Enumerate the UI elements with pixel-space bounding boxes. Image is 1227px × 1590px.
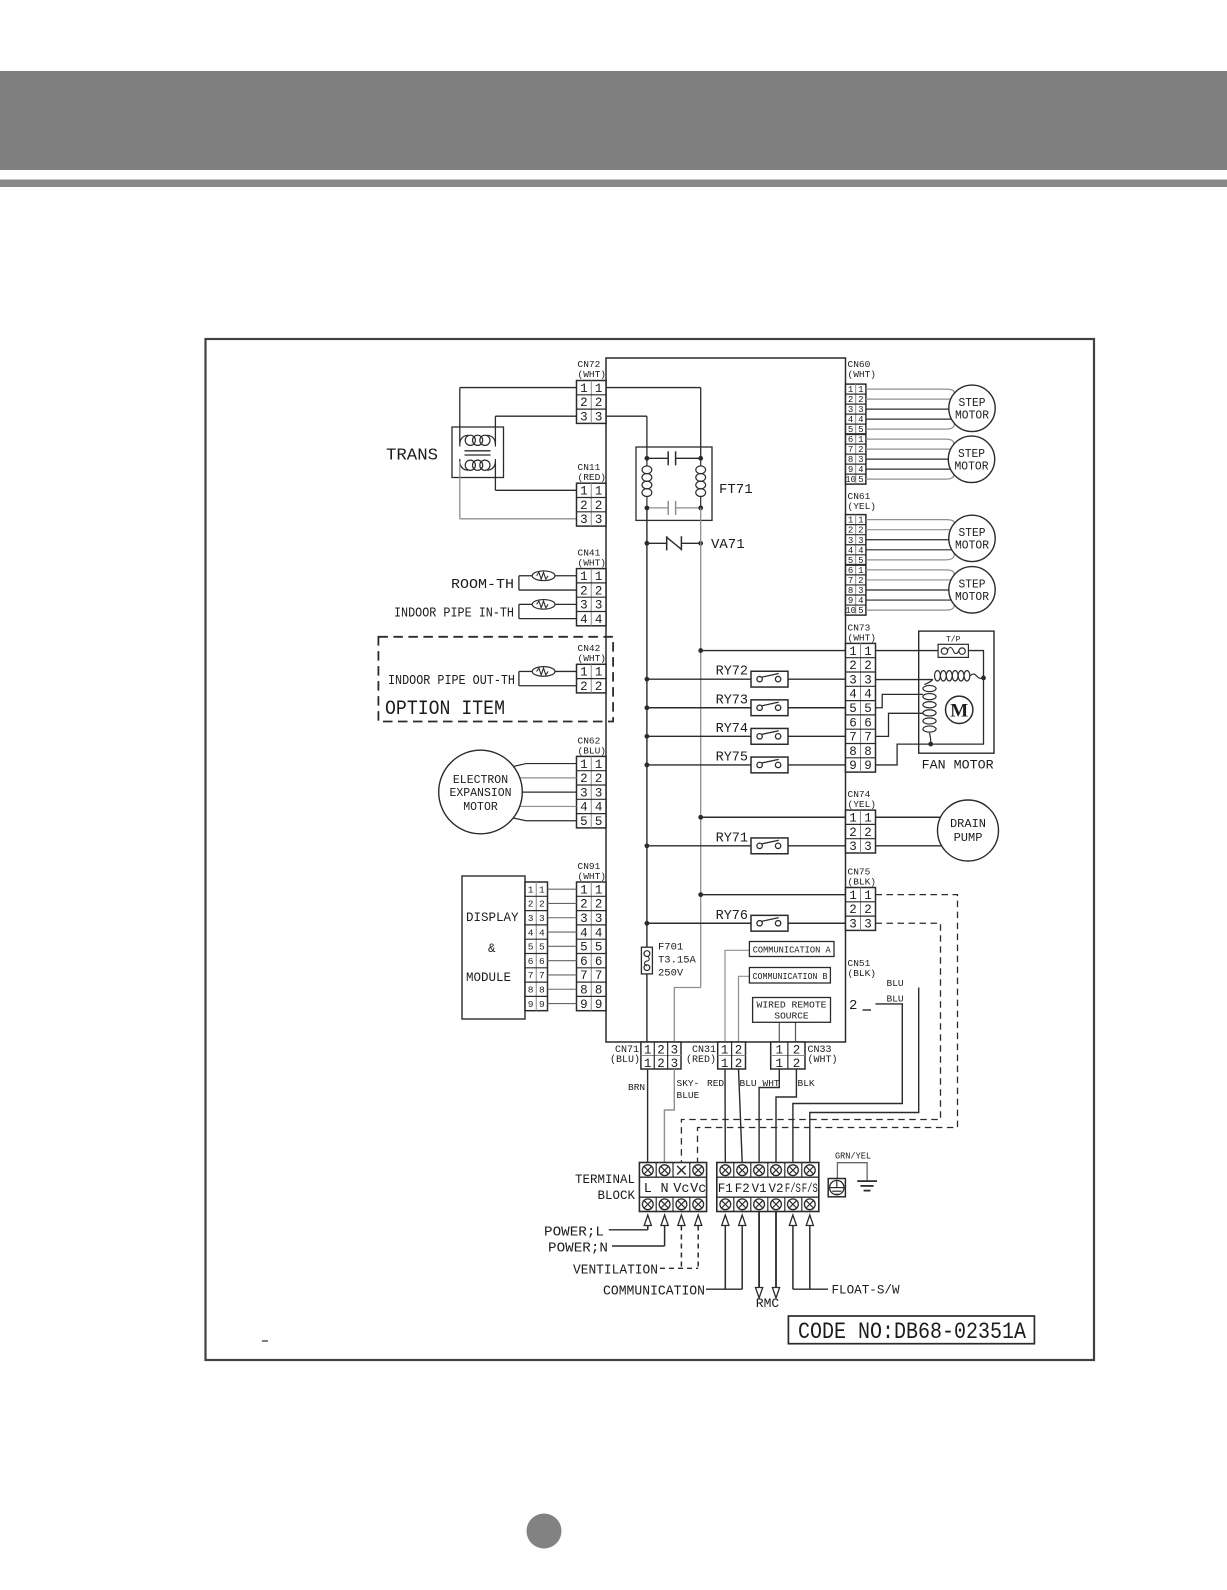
fan motor aux winding [925, 680, 934, 685]
svg-text:8: 8 [580, 984, 588, 998]
wire bus to CN73 pin1 [701, 650, 846, 652]
svg-text:MOTOR: MOTOR [955, 409, 989, 422]
wire F701 to CN71 pin1 [646, 974, 648, 1042]
svg-text:9: 9 [580, 998, 588, 1012]
svg-text:3: 3 [580, 411, 588, 425]
svg-text:5: 5 [864, 702, 872, 716]
svg-text:1: 1 [849, 812, 857, 826]
wire FT71 left to VA71 [646, 508, 648, 543]
svg-text:F1: F1 [718, 1182, 733, 1196]
svg-text:&: & [488, 942, 496, 956]
svg-text:DISPLAY: DISPLAY [466, 911, 519, 925]
svg-text:9: 9 [539, 999, 545, 1010]
svg-text:4: 4 [580, 801, 588, 815]
svg-text:F2: F2 [735, 1182, 750, 1196]
svg-text:(RED): (RED) [686, 1054, 716, 1066]
svg-text:1: 1 [580, 570, 588, 584]
svg-text:4: 4 [539, 927, 545, 938]
svg-text:2: 2 [528, 899, 534, 910]
svg-text:2: 2 [595, 396, 603, 410]
svg-text:L: L [644, 1182, 652, 1197]
fan motor box [919, 631, 994, 753]
svg-text:2: 2 [657, 1057, 665, 1071]
wire CN31 pin2 to COMMUNICATION B [739, 976, 750, 1042]
svg-text:T3.15A: T3.15A [658, 955, 697, 967]
box WIRED REMOTE SOURCE [753, 998, 831, 1023]
svg-text:8: 8 [528, 984, 534, 995]
svg-text:4: 4 [580, 926, 588, 940]
svg-text:1: 1 [776, 1057, 784, 1071]
svg-text:6: 6 [539, 956, 545, 967]
svg-text:STEP: STEP [959, 578, 986, 591]
svg-text:2: 2 [580, 680, 588, 694]
svg-text:7: 7 [848, 445, 853, 455]
thermal protector T/P [938, 644, 968, 657]
electron expansion motor [439, 750, 523, 834]
wire WHT CN33 pin1 to V1 [759, 1069, 779, 1163]
wire CN74 pin3 to drain pump [876, 845, 942, 847]
svg-text:CODE NO:DB68-02351A: CODE NO:DB68-02351A [798, 1319, 1026, 1345]
svg-text:POWER;N: POWER;N [548, 1242, 608, 1257]
svg-text:5: 5 [849, 702, 857, 716]
wire CN74 pin1 to drain pump [876, 816, 941, 818]
svg-text:7: 7 [595, 969, 603, 983]
svg-text:(BLU): (BLU) [578, 746, 607, 757]
main PCB board outline [606, 358, 846, 1042]
display module connector [525, 882, 548, 1011]
wire transformer secondary right to CN11 pin1 [494, 462, 496, 491]
svg-text:GRN/YEL: GRN/YEL [835, 1151, 871, 1162]
svg-text:2: 2 [858, 395, 863, 405]
FT71 left coil [646, 455, 648, 467]
svg-text:5: 5 [595, 941, 603, 955]
display module box [462, 876, 525, 1019]
diagram outer frame [206, 339, 1095, 1360]
svg-text:9: 9 [849, 759, 857, 773]
svg-text:7: 7 [864, 731, 872, 745]
svg-text:(WHT): (WHT) [848, 369, 877, 380]
svg-text:RY76: RY76 [716, 909, 748, 924]
svg-text:1: 1 [644, 1044, 652, 1058]
svg-text:8: 8 [595, 984, 603, 998]
svg-text:1: 1 [595, 570, 603, 584]
option item dashed box [378, 637, 613, 722]
wire CN72 pin1 to FT71 right [606, 387, 701, 389]
connector CN75 [846, 888, 876, 931]
protective earth symbol [828, 1179, 845, 1197]
step motor 3 wires [866, 520, 954, 524]
svg-text:1: 1 [864, 812, 872, 826]
connector CN73 [846, 643, 876, 772]
page header bar [0, 71, 1227, 170]
svg-text:4: 4 [595, 801, 603, 815]
svg-text:PUMP: PUMP [954, 831, 983, 845]
svg-text:2: 2 [657, 1044, 665, 1058]
svg-text:2: 2 [595, 584, 603, 598]
svg-text:RY71: RY71 [716, 831, 748, 846]
svg-text:1: 1 [644, 1057, 652, 1071]
svg-text:3: 3 [864, 673, 872, 687]
svg-text:2: 2 [864, 903, 872, 917]
svg-text:1: 1 [539, 884, 545, 895]
svg-text:9: 9 [595, 998, 603, 1012]
svg-text:ROOM-TH: ROOM-TH [451, 577, 514, 593]
connector CN31 [718, 1042, 746, 1069]
FT71 top capacitor [647, 457, 668, 459]
svg-text:COMMUNICATION A: COMMUNICATION A [753, 946, 832, 956]
svg-text:1: 1 [580, 883, 588, 897]
svg-text:COMMUNICATION B: COMMUNICATION B [753, 972, 829, 982]
terminal screws signal top [720, 1165, 731, 1176]
svg-text:3: 3 [539, 913, 545, 924]
svg-text:10: 10 [845, 475, 856, 485]
svg-text:VENTILATION: VENTILATION [573, 1264, 658, 1279]
svg-text:8: 8 [848, 586, 853, 596]
svg-text:(YEL): (YEL) [848, 799, 877, 810]
svg-text:3: 3 [858, 586, 863, 596]
svg-text:SOURCE: SOURCE [774, 1011, 809, 1022]
display module to CN91 wires [548, 888, 577, 890]
svg-text:INDOOR PIPE OUT-TH: INDOOR PIPE OUT-TH [388, 673, 515, 689]
svg-text:EXPANSION: EXPANSION [449, 787, 511, 800]
wire RED CN31 pin1 to F1 [724, 1069, 726, 1163]
svg-text:OPTION ITEM: OPTION ITEM [385, 698, 505, 721]
relay RY72 [645, 665, 846, 687]
indoor pipe in thermistor wiring [555, 603, 577, 605]
svg-text:3: 3 [848, 405, 853, 415]
svg-text:250V: 250V [658, 968, 684, 980]
svg-text:DRAIN: DRAIN [950, 817, 986, 831]
wire CN73 pin5 to winding tap [876, 694, 924, 707]
relay RY74 [645, 722, 846, 744]
drain pump [938, 800, 999, 861]
svg-text:3: 3 [595, 411, 603, 425]
relay RY73 [645, 693, 846, 715]
svg-text:7: 7 [580, 969, 588, 983]
svg-text:(YEL): (YEL) [848, 501, 877, 512]
fuse F701 [641, 947, 652, 974]
wire CN73 pin7 to winding tap [876, 713, 924, 736]
relay RY75 [645, 750, 846, 772]
svg-text:MOTOR: MOTOR [955, 460, 989, 473]
svg-text:5: 5 [858, 606, 863, 616]
svg-text:6: 6 [595, 955, 603, 969]
step motor 4 [949, 567, 995, 613]
svg-text:1: 1 [858, 385, 863, 395]
filter FT71 box [636, 447, 712, 520]
svg-text:5: 5 [539, 942, 545, 953]
svg-text:BLU: BLU [740, 1078, 757, 1089]
ventilation arrows [678, 1215, 685, 1226]
svg-text:RED: RED [707, 1078, 724, 1089]
svg-text:2: 2 [858, 445, 863, 455]
svg-text:5: 5 [858, 475, 863, 485]
svg-text:WIRED REMOTE: WIRED REMOTE [757, 1000, 827, 1011]
room thermistor RT [532, 571, 555, 581]
svg-text:(WHT): (WHT) [578, 369, 607, 380]
svg-text:1: 1 [595, 758, 603, 772]
svg-text:5: 5 [580, 941, 588, 955]
svg-text:9: 9 [848, 465, 853, 475]
svg-text:3: 3 [858, 455, 863, 465]
svg-text:8: 8 [539, 984, 545, 995]
svg-text:7: 7 [528, 970, 534, 981]
wire CN73 pin1 to thermal protector [876, 650, 939, 652]
svg-text:BLOCK: BLOCK [597, 1189, 635, 1203]
svg-text:1: 1 [580, 666, 588, 680]
relay RY71 [645, 831, 846, 853]
wire BLK CN33 pin2 to V2 [776, 1069, 796, 1163]
svg-text:(WHT): (WHT) [578, 871, 607, 882]
svg-text:N: N [661, 1182, 669, 1197]
svg-text:3: 3 [864, 840, 872, 854]
svg-text:MODULE: MODULE [466, 971, 511, 985]
svg-text:FLOAT-S/W: FLOAT-S/W [832, 1284, 900, 1298]
svg-text:INDOOR PIPE IN-TH: INDOOR PIPE IN-TH [394, 606, 514, 622]
earth wire [837, 1163, 867, 1181]
dashed wire CN75 pin1 to Vc terminal [698, 895, 958, 1163]
wire CN51 pin2 to F/S terminal [793, 1004, 902, 1163]
svg-text:MOTOR: MOTOR [955, 539, 989, 552]
svg-text:4: 4 [858, 596, 863, 606]
stray dash mark [262, 1340, 268, 1342]
terminal block power [639, 1163, 706, 1212]
svg-text:BLUE: BLUE [677, 1090, 700, 1101]
svg-text:1: 1 [849, 889, 857, 903]
svg-text:1: 1 [595, 382, 603, 396]
svg-text:1: 1 [580, 758, 588, 772]
left bus wire (live) [646, 543, 648, 947]
svg-text:M: M [950, 701, 968, 722]
svg-text:7: 7 [539, 970, 545, 981]
svg-text:Vc: Vc [690, 1182, 706, 1197]
wire CN72 pin3 to transformer primary right [495, 415, 576, 417]
earth ground symbol [857, 1180, 877, 1182]
svg-text:3: 3 [580, 513, 588, 527]
svg-text:3: 3 [858, 405, 863, 415]
svg-text:2: 2 [793, 1044, 801, 1058]
svg-text:1: 1 [864, 645, 872, 659]
svg-text:1: 1 [848, 385, 853, 395]
power N arrow [661, 1215, 668, 1226]
svg-text:BLK: BLK [798, 1078, 815, 1089]
svg-text:3: 3 [595, 912, 603, 926]
step motor 1 [949, 385, 995, 431]
svg-text:3: 3 [595, 599, 603, 613]
svg-text:POWER;L: POWER;L [544, 1226, 604, 1241]
svg-text:4: 4 [848, 415, 853, 425]
connector CN42 [577, 664, 607, 693]
svg-text:4: 4 [528, 927, 534, 938]
svg-text:RY75: RY75 [716, 750, 748, 765]
svg-text:TRANS: TRANS [386, 447, 438, 466]
indoor pipe out thermistor [532, 667, 555, 677]
svg-text:RY72: RY72 [716, 665, 748, 680]
svg-text:STEP: STEP [959, 527, 986, 540]
wire bus to CN75 pin1 [701, 894, 846, 896]
svg-text:1: 1 [848, 516, 853, 526]
indoor pipe in thermistor [532, 600, 555, 610]
terminal block signal [717, 1163, 819, 1212]
svg-text:(BLK): (BLK) [848, 968, 877, 979]
svg-text:2: 2 [849, 659, 857, 673]
wire float switch to F/S terminal [810, 988, 919, 1163]
svg-text:3: 3 [849, 673, 857, 687]
svg-text:(WHT): (WHT) [848, 633, 877, 644]
svg-text:2: 2 [580, 898, 588, 912]
svg-text:3: 3 [848, 536, 853, 546]
svg-text:2: 2 [864, 826, 872, 840]
svg-text:VA71: VA71 [711, 537, 745, 553]
svg-text:(BLU): (BLU) [610, 1054, 640, 1066]
fan motor main winding [876, 679, 934, 681]
svg-text:8: 8 [864, 745, 872, 759]
svg-text:1: 1 [864, 889, 872, 903]
svg-text:8: 8 [848, 455, 853, 465]
box COMMUNICATION A [749, 942, 834, 957]
svg-text:RY73: RY73 [716, 693, 748, 708]
wire transformer secondary left to CN11 pin3 [459, 462, 461, 519]
svg-text:4: 4 [595, 926, 603, 940]
wire CN73 pin9 to motor common [876, 744, 931, 765]
svg-text:3: 3 [671, 1057, 679, 1071]
transformer TRANS [452, 427, 504, 478]
svg-text:2: 2 [849, 998, 857, 1014]
svg-text:6: 6 [580, 955, 588, 969]
svg-text:Vc: Vc [673, 1182, 689, 1197]
svg-text:RY74: RY74 [716, 722, 748, 737]
svg-text:1: 1 [858, 566, 863, 576]
svg-text:2: 2 [848, 395, 853, 405]
svg-text:T/P: T/P [946, 636, 961, 645]
svg-text:4: 4 [849, 688, 857, 702]
svg-text:V2: V2 [768, 1182, 783, 1196]
svg-text:5: 5 [528, 942, 534, 953]
svg-text:7: 7 [848, 576, 853, 586]
connector CN61 [846, 515, 866, 616]
svg-text:1: 1 [580, 485, 588, 499]
svg-text:(BLK): (BLK) [848, 877, 877, 888]
connector CN71 [641, 1042, 681, 1069]
connector CN60 [846, 384, 866, 484]
power L arrow [644, 1215, 651, 1226]
svg-text:6: 6 [848, 435, 853, 445]
svg-text:3: 3 [580, 599, 588, 613]
svg-text:5: 5 [580, 815, 588, 829]
svg-text:ELECTRON: ELECTRON [453, 774, 508, 787]
svg-text:7: 7 [849, 731, 857, 745]
svg-text:MOTOR: MOTOR [463, 801, 498, 814]
svg-text:2: 2 [849, 903, 857, 917]
relay RY76 [645, 909, 846, 931]
svg-text:F701: F701 [658, 942, 683, 954]
svg-text:6: 6 [528, 956, 534, 967]
svg-text:F/S: F/S [785, 1182, 801, 1196]
svg-text:2: 2 [735, 1057, 743, 1071]
svg-text:(RED): (RED) [578, 472, 607, 483]
svg-text:STEP: STEP [959, 397, 986, 410]
connector CN33 [771, 1042, 805, 1069]
header underline band [0, 180, 1227, 188]
varistor VA71 [647, 542, 667, 544]
svg-text:2: 2 [595, 898, 603, 912]
svg-text:1: 1 [595, 666, 603, 680]
communication arrows [722, 1215, 729, 1226]
svg-text:FT71: FT71 [719, 482, 753, 498]
svg-text:9: 9 [848, 596, 853, 606]
svg-text:BRN: BRN [628, 1082, 645, 1093]
FT71 junction dots [645, 456, 650, 461]
terminal screws power top [642, 1165, 653, 1176]
connector CN72 [577, 381, 607, 424]
svg-text:1: 1 [849, 645, 857, 659]
svg-text:9: 9 [528, 999, 534, 1010]
svg-text:4: 4 [858, 415, 863, 425]
svg-text:4: 4 [858, 546, 863, 556]
svg-text:2: 2 [849, 826, 857, 840]
svg-text:4: 4 [848, 546, 853, 556]
svg-text:FAN MOTOR: FAN MOTOR [922, 758, 994, 773]
wire CN31 pin1 to COMMUNICATION A [725, 950, 749, 1042]
svg-text:3: 3 [864, 918, 872, 932]
svg-text:3: 3 [595, 786, 603, 800]
wire BRN CN71 pin1 to L [647, 1069, 649, 1163]
svg-text:3: 3 [849, 918, 857, 932]
svg-text:4: 4 [595, 613, 603, 627]
svg-text:1: 1 [580, 382, 588, 396]
box COMMUNICATION B [749, 968, 830, 984]
svg-text:(WHT): (WHT) [808, 1054, 838, 1066]
svg-text:1: 1 [721, 1057, 729, 1071]
svg-text:1: 1 [595, 883, 603, 897]
svg-text:2: 2 [580, 772, 588, 786]
svg-text:1: 1 [721, 1044, 729, 1058]
wire BLU CN31 pin2 to F2 [739, 1069, 743, 1163]
step motor 2 [948, 436, 994, 482]
svg-text:6: 6 [864, 716, 872, 730]
float switch arrows [789, 1215, 796, 1226]
connector CN11 [577, 483, 607, 526]
wires CN33 to WIRED REMOTE SOURCE [778, 1022, 780, 1042]
svg-text:(WHT): (WHT) [578, 653, 607, 664]
page number dot [527, 1514, 562, 1549]
svg-text:RMC: RMC [756, 1296, 780, 1311]
svg-text:2: 2 [793, 1057, 801, 1071]
svg-text:2: 2 [858, 526, 863, 536]
indoor pipe out thermistor wiring [555, 670, 577, 672]
svg-text:1: 1 [858, 516, 863, 526]
svg-text:10: 10 [845, 606, 856, 616]
RMC arrows [758, 1212, 760, 1288]
wire CN72 pin3 to FT71 left [606, 415, 647, 417]
svg-text:1: 1 [595, 485, 603, 499]
wire bus to CN74 pin1 [701, 816, 846, 818]
svg-text:9: 9 [864, 759, 872, 773]
svg-text:8: 8 [849, 745, 857, 759]
svg-text:2: 2 [864, 659, 872, 673]
fan motor M symbol [946, 696, 973, 723]
code number box [788, 1316, 1034, 1344]
svg-text:4: 4 [858, 465, 863, 475]
step motor 1 wires [866, 389, 954, 393]
FT71 bottom capacitor [647, 507, 668, 509]
connector CN74 [846, 810, 876, 853]
svg-text:4: 4 [580, 613, 588, 627]
svg-text:(WHT): (WHT) [578, 558, 607, 569]
svg-text:3: 3 [671, 1044, 679, 1058]
connector CN62 [577, 756, 607, 828]
neutral jog to CN71 pin3 [674, 988, 700, 1043]
